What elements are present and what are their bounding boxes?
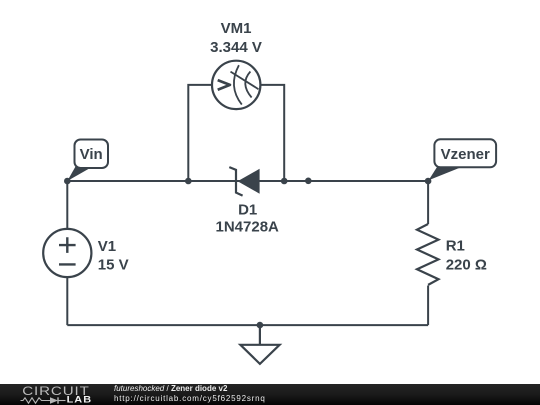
junction node wire joint (305, 178, 312, 185)
logo resistor squiggle (21, 398, 51, 403)
wire voltmeter loop (188, 85, 284, 181)
junction node right voltmeter tap (281, 178, 288, 185)
junction node at Vzener (425, 178, 432, 185)
wire top rail Vin to Vzener (67, 180, 428, 182)
value 220 ohm (446, 256, 487, 273)
node Vin flag (67, 140, 108, 182)
svg-text:220 Ω: 220 Ω (446, 256, 487, 273)
footer credit line (114, 384, 266, 403)
junction node left voltmeter tap (185, 178, 192, 185)
svg-text:Vzener: Vzener (441, 146, 490, 163)
voltage source V1 (43, 229, 91, 277)
zener diode D1 (229, 167, 259, 196)
wire bottom rail (67, 324, 428, 326)
node Vzener flag (429, 139, 497, 180)
svg-text:V1: V1 (98, 238, 116, 255)
value 1N4728A (216, 218, 280, 235)
label V1 (98, 238, 116, 255)
logo CIRCUIT text (22, 384, 90, 397)
svg-text:LAB: LAB (67, 395, 93, 405)
footer bar (0, 384, 540, 405)
svg-text:Vin: Vin (80, 146, 103, 163)
logo LAB text (67, 395, 93, 405)
svg-text:VM1: VM1 (221, 20, 252, 37)
value 15 V (98, 257, 129, 274)
svg-text:futureshocked / Zener diode v2: futureshocked / Zener diode v2 (114, 384, 228, 393)
junction node ground tap (257, 322, 264, 329)
resistor R1 (417, 224, 439, 285)
wire right rail upper (427, 181, 429, 224)
svg-text:D1: D1 (238, 202, 257, 219)
svg-text:http://circuitlab.com/cy5f6259: http://circuitlab.com/cy5f62592srnq (114, 394, 266, 403)
svg-text:1N4728A: 1N4728A (216, 218, 280, 235)
logo diode symbol (50, 397, 66, 403)
voltmeter VM1 (212, 61, 260, 109)
svg-text:15 V: 15 V (98, 257, 129, 274)
svg-text:R1: R1 (446, 238, 465, 255)
label VM1 (221, 20, 252, 37)
wire right rail lower (427, 286, 429, 326)
label R1 (446, 238, 465, 255)
value 3.344 V (210, 39, 262, 56)
ground (240, 325, 279, 364)
wire left rail through V1 (66, 181, 68, 325)
svg-text:3.344 V: 3.344 V (210, 39, 262, 56)
junction node at Vin (64, 178, 71, 185)
label D1 (238, 202, 257, 219)
